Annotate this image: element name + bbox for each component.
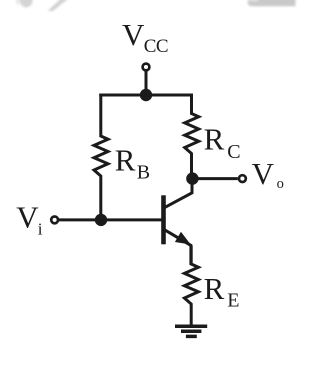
transistor Q1 base bar <box>161 195 166 244</box>
svg-text:C: C <box>227 141 240 163</box>
svg-text:R: R <box>204 271 225 306</box>
svg-text:CC: CC <box>144 36 168 57</box>
terminal Vi <box>51 217 58 224</box>
transistor Q1 emitter arrow <box>176 233 190 244</box>
wire top rail <box>99 94 193 97</box>
transistor Q1 emitter lead <box>165 230 191 265</box>
svg-text:R: R <box>115 143 136 178</box>
watermark slash top-left <box>48 0 70 11</box>
node junction dot base <box>95 214 107 226</box>
svg-text:E: E <box>227 290 239 312</box>
watermark bar top-right <box>247 0 295 6</box>
svg-text:B: B <box>137 162 150 184</box>
watermark blob top-left <box>16 0 33 7</box>
terminal Vcc <box>143 64 150 71</box>
svg-text:R: R <box>204 122 225 157</box>
resistor R_C (right branch with wires) <box>185 94 199 179</box>
transistor Q1 collector lead <box>165 181 192 208</box>
wire output <box>192 177 237 180</box>
wire base <box>58 218 162 221</box>
svg-text:V: V <box>252 156 275 191</box>
node junction dot top (Vcc rail) <box>140 89 152 101</box>
resistor R_B (left branch with wires) <box>94 94 108 222</box>
svg-text:i: i <box>38 220 43 239</box>
wire Vcc stub <box>145 71 148 95</box>
resistor R_E (emitter branch with wires) <box>184 246 198 327</box>
ground <box>175 326 207 336</box>
svg-text:o: o <box>277 176 284 192</box>
node junction dot collector <box>186 172 198 184</box>
svg-text:V: V <box>16 200 39 235</box>
terminal Vo <box>239 175 246 182</box>
svg-text:V: V <box>122 17 145 52</box>
